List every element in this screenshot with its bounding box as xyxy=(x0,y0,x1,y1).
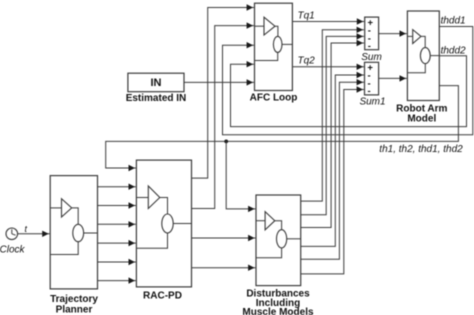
svg-text:th1, th2, thd1, thd2: th1, th2, thd1, thd2 xyxy=(379,144,463,155)
svg-text:Model: Model xyxy=(407,113,436,124)
wire Disturbances out1 to Sum in2 xyxy=(301,27,364,202)
label Tq1 xyxy=(298,11,315,22)
signs Sum1 + - - - xyxy=(367,62,373,97)
wire clock to Trajectory Planner xyxy=(18,231,50,237)
wire Disturbances out5 to Sum1 in3 xyxy=(301,79,364,259)
wire Trajectory out2 to RAC-PD in3 xyxy=(98,202,136,208)
wire Trajectory out1 to RAC-PD in2 xyxy=(98,184,136,190)
svg-text:Trajectory: Trajectory xyxy=(50,294,98,305)
icon RAC-PD xyxy=(136,186,191,248)
wire Trajectory out4 to RAC-PD in5 xyxy=(98,240,136,246)
label Sum1 xyxy=(359,97,385,108)
svg-text:Clock: Clock xyxy=(0,245,25,256)
wire RAC-PD out4 to Disturbances in3 xyxy=(192,265,256,271)
svg-text:Sum: Sum xyxy=(361,52,382,63)
label Sum xyxy=(361,52,382,63)
label th1 th2 thd1 thd2 xyxy=(379,144,463,155)
wire RAC-PD out3 to Disturbances in2 xyxy=(192,235,256,241)
wire AFC Loop Tq2 to Sum1 in1 xyxy=(292,64,364,70)
label thdd2 xyxy=(441,46,466,57)
wire RAC-PD out1 up to AFC Loop in1 xyxy=(192,4,254,178)
block Robot Arm Model xyxy=(407,11,439,101)
block Disturbances Including Muscle Models xyxy=(256,195,301,286)
wire AFC Loop Tq1 to Sum in1 xyxy=(292,18,364,24)
wire Disturbances out3 to Sum in4 xyxy=(301,40,364,228)
wire Trajectory out5 to RAC-PD in6 xyxy=(98,259,136,265)
wire Trajectory out3 to RAC-PD in4 xyxy=(98,221,136,227)
wire RAC-PD out2 up to AFC Loop in2 xyxy=(192,22,254,208)
block Sum1 xyxy=(365,62,379,95)
block RAC-PD xyxy=(136,160,191,287)
svg-text:Planner: Planner xyxy=(56,305,93,315)
icon Disturbances xyxy=(256,212,301,258)
block IN (Estimated IN source) xyxy=(128,73,184,92)
wire junction to Disturbances in1 xyxy=(226,141,255,212)
block Trajectory Planner xyxy=(50,176,97,289)
wire Disturbances out2 to Sum in3 xyxy=(301,33,364,215)
wire Disturbances out6 to Sum1 in4 xyxy=(301,86,364,274)
icon Trajectory Planner xyxy=(50,199,97,255)
icon AFC Loop xyxy=(255,17,293,60)
label Estimated IN xyxy=(126,93,187,104)
svg-text:AFC Loop: AFC Loop xyxy=(250,93,298,104)
label AFC Loop xyxy=(250,93,298,104)
wire thdd2 feedback bus to AFC Loop in4 xyxy=(231,56,467,127)
wire Disturbances out4 to Sum1 in2 xyxy=(301,72,364,247)
wire Sum to Robot Arm Model in1 xyxy=(379,30,407,36)
label Disturbances Including Muscle Models xyxy=(242,289,314,315)
label Robot Arm Model xyxy=(396,104,447,125)
svg-text:Tq2: Tq2 xyxy=(298,56,316,67)
label Tq2 xyxy=(298,56,316,67)
block Sum xyxy=(365,17,379,50)
svg-text:IN: IN xyxy=(151,77,162,89)
label Clock xyxy=(0,245,25,256)
svg-text:Muscle Models: Muscle Models xyxy=(242,307,314,315)
svg-text:thdd1: thdd1 xyxy=(441,16,466,27)
svg-text:RAC-PD: RAC-PD xyxy=(143,291,182,302)
label thdd1 xyxy=(441,16,466,27)
svg-text:Tq1: Tq1 xyxy=(298,11,315,22)
label Trajectory Planner xyxy=(50,294,98,315)
icon Robot Arm Model xyxy=(407,30,439,73)
label IN xyxy=(151,77,162,89)
junction on state feedback bus xyxy=(224,140,228,144)
block AFC Loop xyxy=(255,3,293,90)
svg-text:Sum1: Sum1 xyxy=(359,97,385,108)
wire thdd1 feedback bus to AFC Loop in3 xyxy=(223,27,473,135)
wire Estimated IN to AFC Loop in5 xyxy=(184,79,254,85)
clock source xyxy=(6,228,18,240)
svg-text:-: - xyxy=(368,86,371,97)
wire state feedback bus th1 th2 thd1 thd2 to RAC-PD in1 xyxy=(106,86,459,172)
svg-text:-: - xyxy=(368,41,371,52)
wire Trajectory out6 to RAC-PD in7 xyxy=(98,277,136,283)
wire Sum1 to Robot Arm Model in2 xyxy=(379,75,407,81)
signs Sum + - - - xyxy=(368,17,374,52)
label t xyxy=(25,224,28,234)
label RAC-PD xyxy=(143,291,182,302)
svg-text:Estimated IN: Estimated IN xyxy=(126,93,187,104)
svg-text:thdd2: thdd2 xyxy=(441,46,466,57)
